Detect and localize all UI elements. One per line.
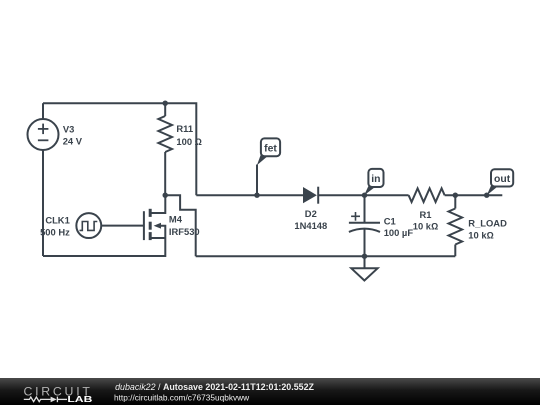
wire fet flag lead [256,165,258,196]
wire top rail [43,103,196,195]
logo doodle [24,397,67,403]
svg-text:500 Hz: 500 Hz [40,227,70,238]
svg-text:LAB: LAB [67,394,92,404]
svg-text:in: in [371,174,380,185]
svg-text:V3: V3 [63,123,74,134]
flag in [364,169,383,196]
svg-text:R11: R11 [176,123,193,134]
svg-text:dubacik22 / Autosave 2021-02-1: dubacik22 / Autosave 2021-02-11T12:01:20… [115,382,314,392]
node R11 top [163,101,168,106]
svg-text:out: out [494,174,511,185]
wire bottom-right rail [196,255,456,257]
flag fet [257,138,280,165]
node R_LOAD top [453,193,458,198]
wire drain jog to ground rail [165,195,196,256]
resistor R1 [409,188,445,202]
wire gate lead [101,225,144,227]
svg-text:1N4148: 1N4148 [294,220,327,231]
wire main middle (to diode) [196,194,303,196]
svg-text:24 V: 24 V [63,136,83,147]
svg-text:M4: M4 [169,213,183,224]
wire left rail top [42,103,44,119]
node out attach [484,193,489,198]
wire R1 to out [445,194,503,196]
capacitor C1 [349,195,380,256]
node C1 ground [362,254,367,259]
wire bottom-left rail [43,238,165,256]
voltage source V3 [28,119,59,150]
transistor M4 [144,196,165,240]
svg-text:10 kΩ: 10 kΩ [468,230,493,241]
svg-text:100 Ω: 100 Ω [176,136,201,147]
diode D2 [303,187,318,204]
node fet attach [254,193,259,198]
svg-text:fet: fet [264,143,277,154]
node drain [163,193,168,198]
svg-text:CLK1: CLK1 [45,215,69,226]
junction dots [163,101,490,259]
svg-text:http://circuitlab.com/c76735uq: http://circuitlab.com/c76735uqbkvww [114,392,250,402]
svg-text:R_LOAD: R_LOAD [468,218,507,229]
flag out [487,169,514,195]
svg-text:IRF530: IRF530 [169,226,200,237]
svg-text:100 µF: 100 µF [384,227,414,238]
svg-text:C1: C1 [384,215,396,226]
node in [362,193,367,198]
ground [351,256,377,280]
svg-text:R1: R1 [420,209,432,220]
resistor R_LOAD [449,195,463,256]
svg-text:10 kΩ: 10 kΩ [413,221,438,232]
svg-text:D2: D2 [305,208,317,219]
wire diode to R1 [318,194,408,196]
wire left rail bottom [42,150,44,256]
resistor R11 [158,103,172,195]
clock source CLK1 [76,213,101,238]
